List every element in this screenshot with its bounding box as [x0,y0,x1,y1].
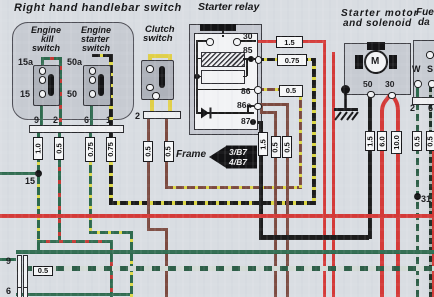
fuse box pin 2 [410,103,415,113]
wire green starter switch 50 to pin 6 [90,96,93,126]
label: Engine kill switch [31,25,61,35]
starter motor M circle [364,50,388,74]
wire label 6.0 [377,131,388,151]
wire brown from relay 86a outer [256,103,289,106]
relay contact circle left [206,38,214,46]
fuse box inner terminal circle [426,51,434,59]
relay terminal circle 85 edge [255,56,263,64]
wire green/yellow vertical down to bottom [130,231,133,297]
relay terminal dot 85 [248,56,254,62]
clutch switch terminal circle lower-mid [152,92,160,100]
wire black 1.5 riser to starter 50 [368,96,372,239]
engine starter switch body [83,65,111,106]
wire green W stub [416,86,419,97]
relay contact wire right [238,40,256,42]
wire yellow stub from clutch bottom terminal [150,95,154,112]
relay terminal label 30 [243,31,252,41]
relay resistor right riser to 85 [246,59,248,76]
pin 9 [34,115,39,125]
kill switch actuator bar [48,74,54,96]
connector 6 double bar [17,287,22,297]
fuse box (cut off at right edge) [413,40,434,100]
wire label 0.5 [54,137,64,160]
starter switch terminal circle mid [89,76,97,84]
wire green/red vertical between switches (15a to pin 2) [59,57,62,126]
kill switch terminal circle mid [39,76,47,84]
wire label 0.75 [85,137,95,162]
wire brown jog horizontal [147,228,168,231]
fuse box terminal circle W [414,80,422,88]
title: Right hand handlebar switch [14,2,182,14]
wire label 1.5 [258,132,269,156]
starter switch actuator bar [98,74,104,96]
wire black/yellow 50a loop above starter switch [92,54,112,57]
wire brown 0.5 vertical down (left) [274,111,277,297]
relay diode row wire [196,112,254,114]
fuse box connector bar [412,97,434,105]
wire brown/yellow horizontal run to relay 86 riser [165,186,302,189]
wire label 10.0 [391,131,402,154]
wire green 1.0 pin 9 down to green bus [37,132,40,252]
starter relay inner box [194,33,258,130]
starter relay outer box [189,24,262,135]
title: Starter relay [198,1,259,13]
label: Engine starter switch [81,25,111,35]
fuse box pin 6 [428,103,433,113]
wire green/red 15a loop up from kill switch [41,58,44,67]
pin 6 [84,115,89,125]
wire red from top edge vertical [332,52,336,297]
wire red 1.5 from relay 30 [256,40,326,44]
wire black/yellow vertical down to junction with horizontal run [312,58,316,205]
relay terminal label 85 [243,45,252,55]
wire brown 0.5 left clutch wire down [147,119,150,231]
wire black/yellow 0.75 pin 1 down [109,132,113,205]
clutch switch connector bar [143,111,181,119]
wire label 0.5 [426,131,434,151]
relay terminal label 87 [241,116,250,126]
relay terminal label 86a [237,100,251,110]
junction node 15 dot [35,170,42,177]
wire brown vertical down to bottom edge [165,228,168,297]
wire green horizontal to node 15 from left edge [0,172,38,175]
title: Starter motor and solenoid [341,8,419,19]
wire label 0.5 [271,136,281,158]
wire yellow loop over clutch switch [148,54,172,58]
wire brown/yellow riser up to relay 86 [299,89,302,189]
label node 15 [25,176,35,186]
junction node 31 dot [414,193,421,200]
starter terminal circle 30 [388,92,396,100]
fuse box label W [412,64,421,74]
wire label 0.5 [282,136,292,158]
clutch connector pin 2 [135,111,140,121]
label 50 [67,89,77,99]
wire black/yellow horizontal run to relay 85 riser [109,201,315,206]
wire green/red horizontal above kill switch [41,57,62,60]
relay wire to 86 [196,89,254,91]
wire label 1.0 [33,137,43,160]
wire red 1.5 vertical down [323,40,327,297]
wire label 0.5 [412,131,422,151]
relay coil (hatched) [201,52,245,67]
engine kill switch body [33,65,60,106]
starter switch terminal circle 50 [89,90,97,98]
relay coil left stub [196,58,201,60]
clutch switch body [141,60,174,100]
starter motor brush block left [355,55,363,69]
wire brown/yellow 0.5 from relay 86 [256,88,301,91]
wire label 0.5 [33,266,53,277]
label 15a [18,57,33,67]
wire black 1.5 from relay 87 [252,121,262,124]
wire green/dash horizontal bus [16,266,434,271]
wire black 1.5 vertical down [259,121,263,241]
wire red 10.0 vertical [396,110,400,297]
wire green/dash 0.5 from fuse box pin 2 down [416,103,419,297]
relay contact wire left [196,40,207,42]
wire yellow left leg to clutch top terminal [148,54,152,66]
starter motor and solenoid box [344,43,411,95]
title: Fuel (cut off at edge) [416,7,434,18]
wire label 0.75 [106,137,116,162]
wire label 0.75 [277,54,307,66]
relay 86a stub [247,105,249,113]
handlebar switch connector bar [29,125,124,133]
wire label 0.5 [164,141,174,162]
pin 1 [106,115,111,125]
wire dark/dash 0.5 from fuse box pin 6 down [429,103,432,297]
wire red main horizontal bus [0,214,434,218]
connector 6 label [6,286,11,296]
wire green/yellow 0.75 pin 6 down [89,132,92,234]
right hand handlebar switch enclosure [12,22,134,120]
relay internal left rail wire [196,40,198,114]
starter terminal label 50 [363,79,372,89]
fuse box label S [427,64,433,74]
relay plunger dashed line [222,31,224,39]
clutch switch terminal circle top [146,65,154,73]
relay resistor box [201,70,245,84]
wire black heavy horizontal to starter 50 [259,235,369,241]
clutch switch terminal circle bottom [146,84,154,92]
wire green kill switch 15 to pin 9 [40,96,43,126]
starter switch terminal circle 50a [89,67,97,75]
relay terminal circle 86a [254,103,262,111]
fuse box terminal circle S [428,80,434,88]
svg-text:3/B7: 3/B7 [229,147,248,157]
wire label 1.5 [365,131,376,151]
starter motor M letter [371,56,379,67]
label: Clutch switch [145,24,175,35]
label node 31 [421,194,431,204]
relay resistor left stub [196,76,201,78]
wire label 0.5 [143,141,153,162]
wire dark stub S down [429,86,432,97]
starter relay top black bar [200,24,236,31]
wire dark stub at left edge [0,258,16,261]
label 50a [67,57,82,67]
kill switch terminal circle 15 [39,90,47,98]
relay terminal label 86 [241,86,250,96]
wire label 1.5 [276,36,303,48]
clutch switch actuator bar [159,66,165,88]
wire red right edge vertical [432,150,434,297]
wire brown 0.5 vertical down (right) [286,103,289,297]
relay contact circle right (terminal 30) [233,38,241,46]
relay node dot on left rail [194,74,200,80]
relay terminal dot 87 [250,119,256,125]
label 15 [20,89,30,99]
wire green main horizontal bus [16,250,434,255]
svg-text:4/B7: 4/B7 [228,157,248,167]
label: Frame [176,149,206,160]
wire brown 0.5 right clutch wire down [165,119,168,188]
wire red 6.0 vertical [380,110,384,297]
wire green lower horizontal from connector 6 [16,293,130,296]
connector 9 label [6,256,11,266]
wire black/yellow 0.75 from relay 85 [256,58,315,62]
wire black/yellow vertical right of starter switch (50a to pin 1) [109,54,113,126]
wire green/red 0.5 pin 2 down [58,132,61,243]
wire green/red vertical down to bottom [110,240,113,297]
starter motor brush block right [389,55,397,69]
wire green/yellow horizontal jog [89,231,133,234]
starter terminal circle 50 [367,91,375,99]
relay coil right wire to 85 [243,58,256,60]
pin 2 [53,115,58,125]
relay terminal circle 86 [254,86,262,94]
wire yellow right leg down to clutch connector [168,54,172,112]
ground dot at starter box [341,85,350,94]
wire brown from relay 86a inner jog [260,106,263,112]
wire label 0.5 [279,85,303,97]
wire green/red horizontal jog [37,240,113,243]
kill switch terminal circle 15a [39,67,47,75]
connector 9 double bar [17,255,22,292]
starter motor commutator block [367,42,385,50]
starter terminal label 30 [385,79,394,89]
